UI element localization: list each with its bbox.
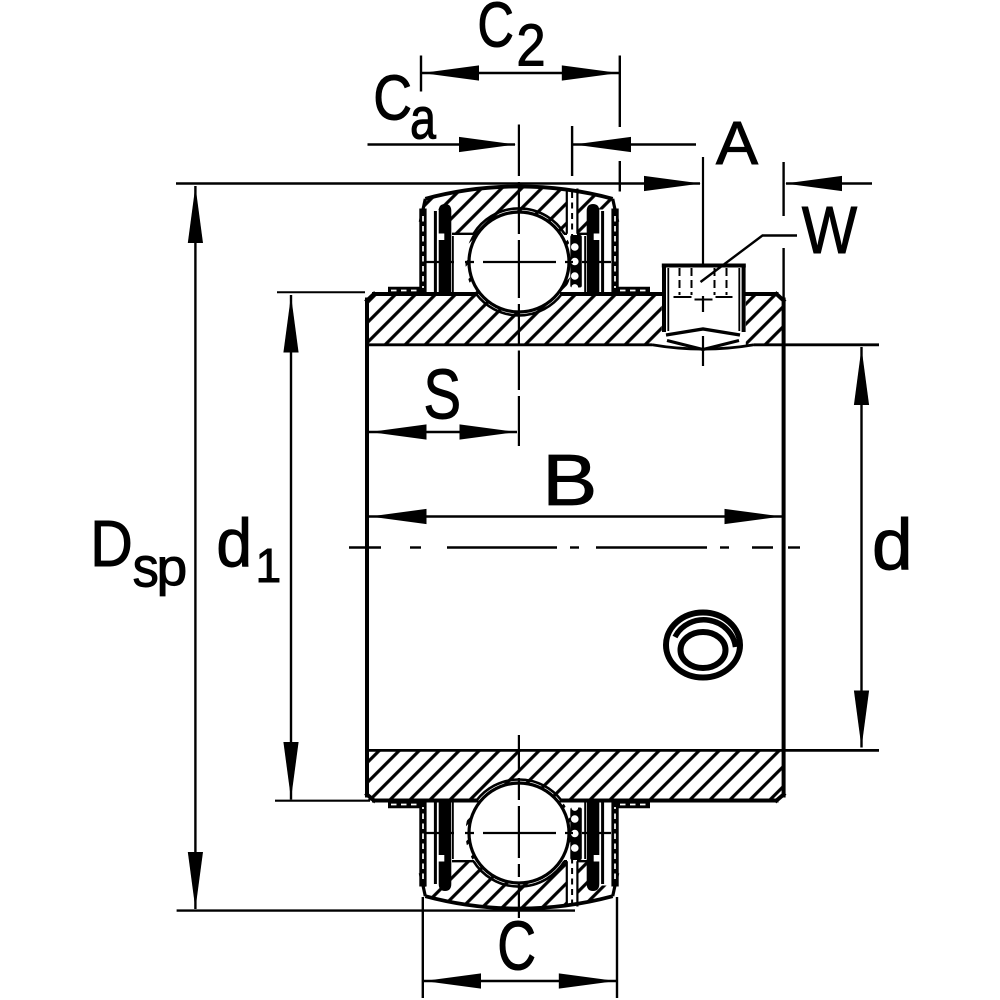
outer ring bottom raceway arc [474, 861, 565, 886]
inner ring top band hatch [367, 209, 784, 345]
grub screw center line [702, 157, 704, 366]
grub screw W [662, 266, 746, 350]
W leader line [701, 236, 798, 283]
top cage [570, 235, 582, 288]
dimension S [369, 431, 517, 433]
bore lines (d surface) with screw dip [367, 345, 879, 751]
outer ring top raceway arc [474, 208, 565, 233]
dimension Dsp [194, 186, 196, 909]
label A [716, 122, 758, 164]
dimension C [423, 897, 617, 998]
label B [549, 455, 593, 505]
label Dsp [95, 521, 130, 566]
top ball [469, 212, 569, 312]
dimension C2 [421, 56, 620, 192]
horizontal axis center line [349, 546, 381, 548]
bottom ball [469, 783, 569, 883]
bearing vertical center line top [518, 125, 520, 177]
label S [426, 369, 459, 419]
inner ring outline [367, 294, 784, 801]
top right seal [587, 204, 600, 294]
far grub screw hole seen through bore [666, 613, 740, 678]
bottom right seal flinger [611, 801, 650, 887]
lubrication hole top [567, 189, 578, 234]
dimension B [369, 515, 782, 517]
dimension d1 [290, 295, 292, 800]
label d1 [219, 517, 248, 567]
outer ring bottom bore lines [452, 860, 588, 862]
outer ring bottom cap hatch [420, 780, 617, 910]
inner ring raceway groove arcs [476, 294, 562, 315]
top left seal flinger [388, 209, 427, 295]
outer ring top cap hatch [420, 186, 617, 316]
bottom right seal [587, 801, 600, 891]
bearing vertical center line bottom [518, 735, 520, 772]
bottom left seal [439, 801, 452, 891]
dimension A and Dsp top extension line [176, 162, 872, 299]
label C2 [480, 2, 512, 47]
bottom left seal flinger [388, 801, 427, 887]
dimension Ca [368, 126, 697, 176]
label Ca [376, 75, 410, 120]
outer ring top OD spherical arc [425, 186, 612, 198]
top right seal flinger [611, 209, 650, 295]
inner ring bottom band hatch [367, 750, 784, 886]
outer ring top bore lines [452, 233, 588, 235]
lubrication hole bottom [567, 861, 578, 906]
outer ring bottom OD spherical arc [425, 896, 612, 908]
label d [875, 517, 908, 570]
bottom cage [570, 808, 582, 861]
top left seal [439, 204, 452, 294]
dimension d [860, 347, 862, 748]
label W [802, 207, 857, 253]
label C [500, 921, 534, 970]
